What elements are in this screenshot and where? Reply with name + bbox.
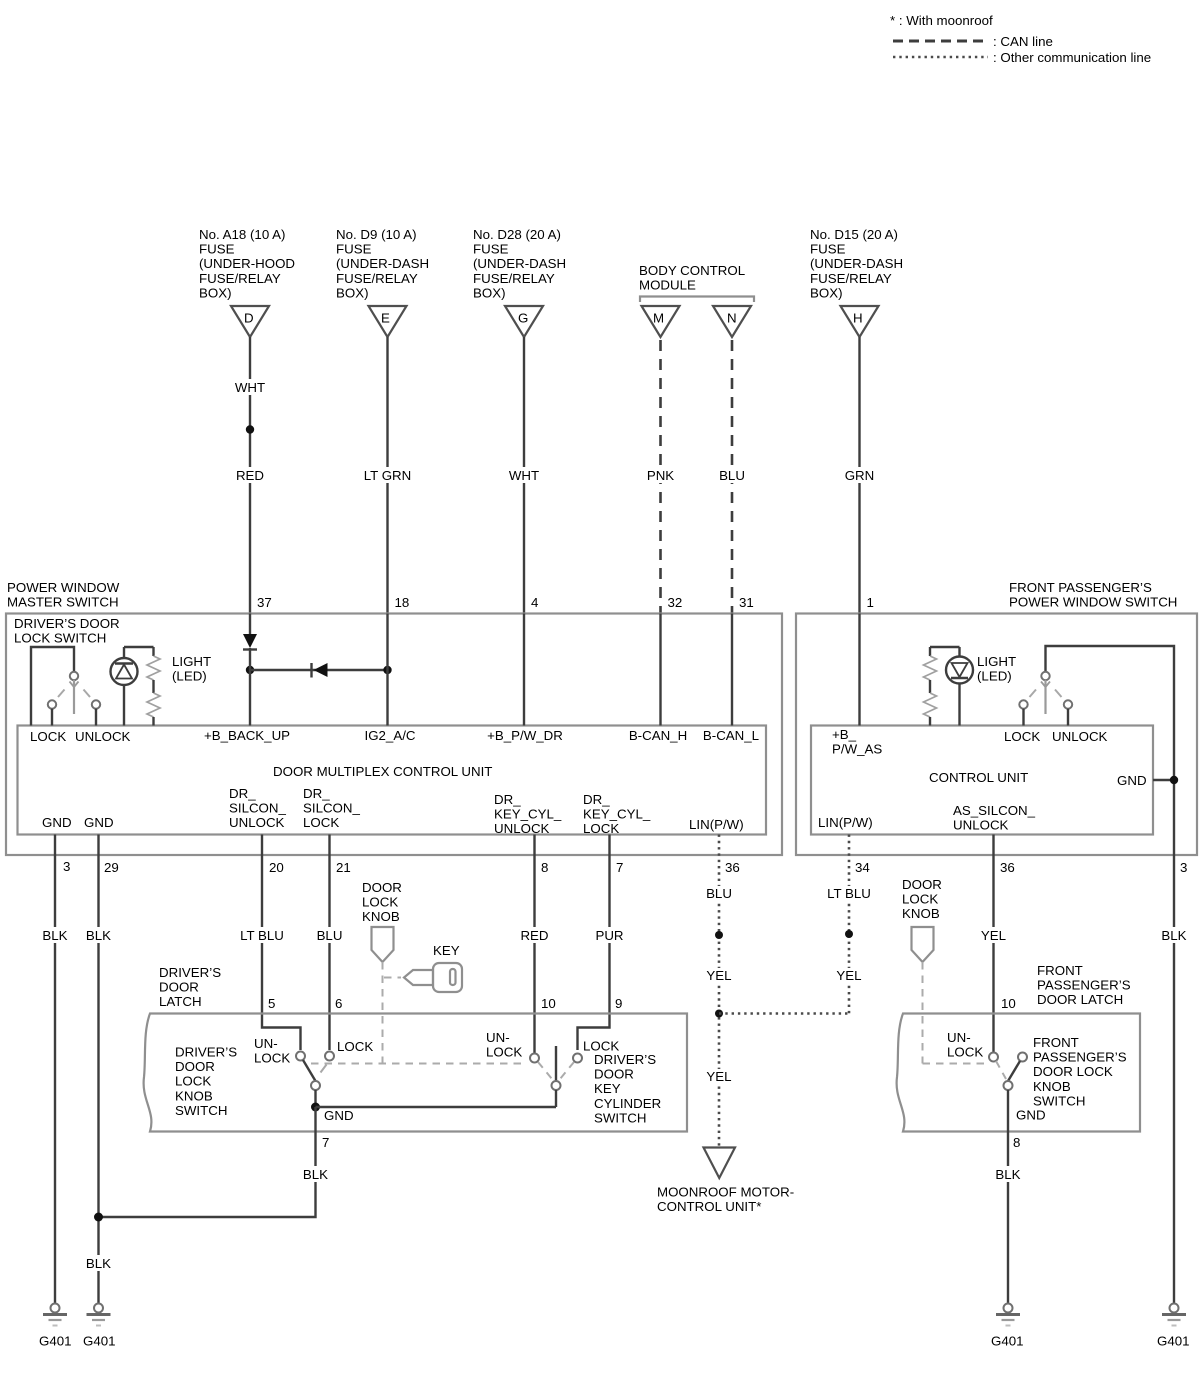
key cylinder arm — [555, 1046, 557, 1081]
passenger LED D4 — [946, 647, 973, 726]
passenger lock switch bracket wire — [1046, 646, 1175, 855]
svg-text:UN-: UN- — [486, 1030, 510, 1045]
svg-text:FUSE/RELAY: FUSE/RELAY — [336, 271, 418, 286]
svg-text:YEL: YEL — [706, 968, 731, 983]
svg-text:N: N — [727, 311, 737, 326]
svg-text:10: 10 — [541, 996, 556, 1011]
driver knob switch arm — [303, 1060, 316, 1081]
svg-text:POWER WINDOW: POWER WINDOW — [7, 580, 120, 595]
svg-text:6: 6 — [335, 996, 342, 1011]
svg-text:PASSENGER’S: PASSENGER’S — [1037, 978, 1131, 993]
DR_KEY_CYL_UNLOCK pin label — [494, 792, 562, 836]
svg-text:KNOB: KNOB — [902, 906, 940, 921]
svg-text:DRIVER’S DOOR: DRIVER’S DOOR — [14, 616, 120, 631]
svg-text:LOCK: LOCK — [947, 1045, 983, 1060]
svg-text:MODULE: MODULE — [639, 278, 696, 293]
svg-text:SWITCH: SWITCH — [1033, 1093, 1085, 1108]
wire BLK pin 3 passenger to G401 — [1160, 855, 1188, 1303]
svg-text:UNLOCK: UNLOCK — [953, 818, 1009, 833]
svg-text:LOCK: LOCK — [337, 1039, 373, 1054]
driver LED bracket wire — [124, 646, 154, 648]
svg-text:LT BLU: LT BLU — [240, 928, 284, 943]
svg-text:: Other communication line: : Other communication line — [993, 50, 1151, 65]
svg-text:DOOR: DOOR — [159, 980, 199, 995]
door lock knob label driver — [362, 880, 402, 924]
svg-text:18: 18 — [395, 595, 410, 610]
driver knob switch dashed arm — [321, 1065, 327, 1073]
svg-text:KNOB: KNOB — [1033, 1079, 1071, 1094]
passenger knob switch lock contact — [1018, 1053, 1027, 1062]
svg-text:DOOR: DOOR — [594, 1067, 634, 1082]
svg-text:YEL: YEL — [706, 1069, 731, 1084]
driver key cylinder lock contact — [573, 1054, 582, 1063]
svg-text:LOCK: LOCK — [254, 1051, 290, 1066]
svg-text:FRONT PASSENGER’S: FRONT PASSENGER’S — [1009, 580, 1152, 595]
passenger lock switch arm — [1041, 680, 1050, 714]
svg-text:32: 32 — [668, 595, 683, 610]
front passenger's door latch label — [1037, 963, 1131, 1007]
svg-text:DOOR LATCH: DOOR LATCH — [1037, 992, 1123, 1007]
driver's door lock switch bracket wire — [31, 647, 74, 726]
svg-text:WHT: WHT — [235, 380, 265, 395]
junction +B_BACK_UP node — [246, 666, 254, 674]
front passenger's door lock knob switch label — [1033, 1035, 1127, 1108]
svg-text:LOCK: LOCK — [583, 821, 619, 836]
svg-text:SILCON_: SILCON_ — [303, 801, 361, 816]
passenger knob switch arm — [1008, 1061, 1020, 1081]
connector E — [369, 306, 407, 337]
svg-text:BLK: BLK — [1161, 928, 1186, 943]
svg-text:GND: GND — [42, 815, 72, 830]
svg-text:DOOR LOCK: DOOR LOCK — [1033, 1064, 1113, 1079]
svg-text:LOCK: LOCK — [486, 1045, 522, 1060]
wire BLK pin 3 to G401 — [41, 835, 69, 1304]
svg-text:21: 21 — [336, 860, 351, 875]
svg-text:20: 20 — [269, 860, 284, 875]
svg-text:FUSE: FUSE — [199, 242, 235, 257]
svg-text:CYLINDER: CYLINDER — [594, 1096, 661, 1111]
svg-text:BLK: BLK — [86, 1256, 111, 1271]
svg-text:29: 29 — [104, 860, 119, 875]
svg-text:KEY: KEY — [433, 943, 460, 958]
svg-text:DOOR: DOOR — [175, 1059, 215, 1074]
driver LED D1 — [111, 647, 138, 726]
passenger LED bracket wire — [930, 646, 960, 648]
svg-text:UNLOCK: UNLOCK — [494, 821, 550, 836]
svg-text:LT GRN: LT GRN — [364, 468, 412, 483]
door lock knob symbol passenger — [912, 927, 934, 962]
svg-text:LIN(P/W): LIN(P/W) — [689, 817, 744, 832]
svg-text:UNLOCK: UNLOCK — [1052, 729, 1108, 744]
front passenger's power window switch label — [1009, 580, 1177, 610]
GND link wire to key cylinder common — [316, 1106, 557, 1108]
key cylinder dashed arms — [538, 1062, 574, 1079]
svg-text:(LED): (LED) — [172, 669, 207, 684]
pin number row below boxes — [63, 859, 1187, 875]
svg-text:LIGHT: LIGHT — [172, 654, 211, 669]
svg-text:GRN: GRN — [845, 468, 875, 483]
svg-text:RED: RED — [520, 928, 548, 943]
passenger inner box pin labels — [832, 727, 1108, 757]
svg-text:IG2_A/C: IG2_A/C — [365, 728, 416, 743]
svg-text:4: 4 — [531, 595, 538, 610]
wire LT BLU pin 20 — [237, 835, 301, 1051]
wire B-CAN_L inside box — [731, 614, 733, 726]
driver's door lock knob switch label — [175, 1045, 237, 1118]
svg-text:DRIVER’S: DRIVER’S — [159, 965, 221, 980]
ground G401 b — [83, 1304, 116, 1349]
svg-text:LOCK: LOCK — [1004, 729, 1040, 744]
svg-text:UN-: UN- — [254, 1036, 278, 1051]
svg-text:LOCK: LOCK — [303, 815, 339, 830]
svg-text:B-CAN_L: B-CAN_L — [703, 728, 759, 743]
svg-text:No. D15 (20 A): No. D15 (20 A) — [810, 227, 898, 242]
passenger control unit box — [811, 726, 1153, 835]
connector D — [231, 306, 269, 337]
svg-text:UNLOCK: UNLOCK — [75, 729, 131, 744]
svg-text:BODY CONTROL: BODY CONTROL — [639, 263, 745, 278]
svg-text:RED: RED — [236, 468, 264, 483]
svg-text:LATCH: LATCH — [159, 994, 202, 1009]
svg-text:LOCK SWITCH: LOCK SWITCH — [14, 631, 106, 646]
svg-text:+B_: +B_ — [832, 727, 857, 742]
passenger common wire to GND — [1007, 1090, 1009, 1303]
passenger lock switch UNLOCK contact — [1064, 700, 1072, 725]
driver's door key cylinder switch label — [594, 1052, 661, 1125]
svg-text:(UNDER-DASH: (UNDER-DASH — [473, 256, 566, 271]
svg-text:D: D — [244, 311, 254, 326]
svg-text:8: 8 — [1013, 1135, 1020, 1150]
driver's door lock switch pivot — [70, 672, 78, 680]
junction IG2 node — [383, 666, 391, 674]
wire LIN dotted pin 36 left — [705, 835, 734, 1148]
knob linkage dashed passenger — [923, 962, 988, 1064]
svg-text:34: 34 — [855, 860, 870, 875]
driver's door latch label — [159, 965, 221, 1009]
wire LIN dotted pin 34 right — [826, 835, 873, 1014]
svg-text:BLK: BLK — [303, 1167, 328, 1182]
ground G401 c — [991, 1304, 1024, 1349]
driver knob switch common — [311, 1081, 320, 1090]
wire pin 1 to +B_P/W_AS — [858, 614, 860, 726]
svg-text:BLU: BLU — [706, 886, 732, 901]
svg-text:31: 31 — [739, 595, 754, 610]
svg-text:7: 7 — [616, 860, 623, 875]
wire BLU pin 21 — [315, 835, 344, 1051]
svg-text:PUR: PUR — [595, 928, 623, 943]
svg-text:AS_SILCON_: AS_SILCON_ — [953, 803, 1036, 818]
svg-text:FUSE/RELAY: FUSE/RELAY — [199, 271, 281, 286]
svg-text:KEY_CYL_: KEY_CYL_ — [583, 807, 651, 822]
wire PNK CAN connector M to pin 32 — [644, 340, 677, 614]
svg-text:LIGHT: LIGHT — [977, 654, 1016, 669]
svg-text:No. D28 (20 A): No. D28 (20 A) — [473, 227, 561, 242]
wire LT GRN fuse E to pin 18 — [362, 337, 413, 614]
svg-text:No. D9 (10 A): No. D9 (10 A) — [336, 227, 417, 242]
svg-text:3: 3 — [63, 859, 70, 874]
driver key cylinder unlock contact — [530, 1054, 539, 1063]
svg-text:(LED): (LED) — [977, 669, 1012, 684]
svg-text:BLU: BLU — [719, 468, 745, 483]
svg-text:(UNDER-DASH: (UNDER-DASH — [810, 256, 903, 271]
light LED label passenger — [977, 654, 1016, 684]
driver's door lock switch dashed arms — [58, 690, 90, 698]
svg-text:G: G — [518, 311, 528, 326]
diode D3 horizontal — [312, 663, 328, 678]
svg-text:+B_BACK_UP: +B_BACK_UP — [204, 728, 290, 743]
svg-text:DR_: DR_ — [229, 786, 256, 801]
svg-text:PASSENGER’S: PASSENGER’S — [1033, 1050, 1127, 1065]
connector M — [642, 306, 680, 337]
svg-text:LIN(P/W): LIN(P/W) — [818, 815, 873, 830]
svg-text:BLU: BLU — [317, 928, 343, 943]
resistor R2 passenger — [924, 647, 937, 726]
svg-text:G401: G401 — [991, 1334, 1024, 1349]
svg-text:KEY: KEY — [594, 1081, 621, 1096]
svg-text:BLK: BLK — [86, 928, 111, 943]
svg-text:KEY_CYL_: KEY_CYL_ — [494, 807, 562, 822]
svg-text:SWITCH: SWITCH — [594, 1110, 646, 1125]
svg-text:DOOR: DOOR — [362, 880, 402, 895]
svg-text:36: 36 — [725, 860, 740, 875]
DR_KEY_CYL_LOCK pin label — [583, 792, 651, 836]
wire B-CAN_H inside box — [659, 614, 661, 726]
svg-text:B-CAN_H: B-CAN_H — [629, 728, 687, 743]
passenger lock switch pivot — [1041, 672, 1049, 680]
left inner box pin labels — [30, 728, 759, 744]
fuse D28 label — [473, 227, 566, 300]
svg-text:3: 3 — [1180, 860, 1187, 875]
svg-text:KNOB: KNOB — [175, 1088, 213, 1103]
driver knob switch common wire to GND junction — [314, 1090, 316, 1107]
driver knob switch UN-LOCK label — [254, 1036, 290, 1066]
svg-text:G401: G401 — [83, 1334, 116, 1349]
svg-text:1: 1 — [867, 595, 874, 610]
svg-text:FRONT: FRONT — [1033, 1035, 1079, 1050]
driver knob switch lock contact — [325, 1052, 334, 1061]
svg-text:BLK: BLK — [42, 928, 67, 943]
fuse A18 label — [199, 227, 295, 300]
svg-text:BOX): BOX) — [473, 285, 506, 300]
power window master switch box — [6, 614, 782, 856]
diode D2 vertical on +B_BACK_UP — [243, 634, 257, 650]
svg-text:CONTROL UNIT*: CONTROL UNIT* — [657, 1199, 761, 1214]
svg-text:CONTROL UNIT: CONTROL UNIT — [929, 770, 1028, 785]
door multiplex control unit box — [18, 726, 767, 835]
svg-text:GND: GND — [84, 815, 114, 830]
ground G401 a — [39, 1304, 72, 1349]
svg-text:36: 36 — [1000, 860, 1015, 875]
svg-text:+B_P/W_DR: +B_P/W_DR — [487, 728, 563, 743]
door lock knob symbol driver — [372, 927, 394, 962]
svg-text:37: 37 — [257, 595, 272, 610]
fuse D15 label — [810, 227, 903, 300]
svg-text:FUSE/RELAY: FUSE/RELAY — [473, 271, 555, 286]
svg-text:LT BLU: LT BLU — [827, 886, 871, 901]
wire BLK pin 7 to junction — [94, 1107, 330, 1222]
svg-text:PNK: PNK — [647, 468, 674, 483]
svg-text:FUSE: FUSE — [473, 242, 509, 257]
driver's door latch box — [144, 1014, 687, 1132]
svg-text:FUSE: FUSE — [336, 242, 372, 257]
svg-text:DR_: DR_ — [303, 786, 330, 801]
wire PUR pin 7 — [578, 835, 627, 1051]
svg-text:SILCON_: SILCON_ — [229, 801, 287, 816]
svg-text:(UNDER-HOOD: (UNDER-HOOD — [199, 256, 295, 271]
moonroof motor control unit connector — [704, 1148, 736, 1179]
wire WHT fuse G to pin 4 — [507, 337, 541, 614]
svg-text:FRONT: FRONT — [1037, 963, 1083, 978]
svg-text:UN-: UN- — [947, 1030, 971, 1045]
svg-text:LOCK: LOCK — [30, 729, 66, 744]
wire BLU CAN connector N to pin 31 — [716, 340, 748, 614]
connector G — [505, 306, 543, 337]
svg-text:8: 8 — [541, 860, 548, 875]
driver knob switch unlock contact — [296, 1052, 305, 1061]
svg-text:(UNDER-DASH: (UNDER-DASH — [336, 256, 429, 271]
key cylinder UN-LOCK label — [486, 1030, 522, 1060]
svg-text:SWITCH: SWITCH — [175, 1103, 227, 1118]
wire BLK pin 29 to G401 — [84, 835, 112, 1304]
svg-text:E: E — [381, 311, 390, 326]
svg-text:FUSE: FUSE — [810, 242, 846, 257]
wire RED pin 8 — [519, 835, 550, 1055]
moonroof motor control unit label — [657, 1185, 794, 1215]
svg-text:MASTER SWITCH: MASTER SWITCH — [7, 595, 119, 610]
passenger knob switch dashed arm — [996, 1061, 1006, 1079]
svg-text:BLK: BLK — [995, 1167, 1020, 1182]
wire LIN dotted horizontal link — [719, 1012, 849, 1015]
svg-text:YEL: YEL — [836, 968, 861, 983]
svg-text:WHT: WHT — [509, 468, 539, 483]
svg-text:9: 9 — [615, 996, 622, 1011]
svg-text:KNOB: KNOB — [362, 909, 400, 924]
front passenger's door latch box — [897, 1014, 1140, 1132]
svg-text:BOX): BOX) — [199, 285, 232, 300]
svg-text:DOOR MULTIPLEX CONTROL UNIT: DOOR MULTIPLEX CONTROL UNIT — [273, 764, 492, 779]
passenger lock switch dashed arms — [1030, 690, 1062, 698]
wire +B_P/W_DR to pin — [523, 614, 525, 726]
svg-text:YEL: YEL — [981, 928, 1006, 943]
svg-text:No. A18 (10 A): No. A18 (10 A) — [199, 227, 285, 242]
svg-text:: CAN line: : CAN line — [993, 34, 1053, 49]
wire IG2_A/C to pin — [386, 614, 388, 726]
svg-text:LOCK: LOCK — [362, 895, 398, 910]
svg-text:MOONROOF MOTOR-: MOONROOF MOTOR- — [657, 1185, 794, 1200]
power window master switch label — [7, 580, 120, 610]
driver's door lock switch arm — [70, 680, 79, 714]
key cylinder common — [552, 1081, 561, 1090]
svg-text:LOCK: LOCK — [175, 1074, 211, 1089]
svg-text:10: 10 — [1001, 996, 1016, 1011]
svg-text:GND: GND — [324, 1108, 354, 1123]
key symbol — [384, 963, 462, 992]
wire WHT/RED fuse D to pin 37 — [233, 337, 267, 614]
svg-text:H: H — [853, 311, 863, 326]
svg-text:P/W_AS: P/W_AS — [832, 742, 882, 757]
svg-text:FUSE/RELAY: FUSE/RELAY — [810, 271, 892, 286]
svg-text:LOCK: LOCK — [902, 892, 938, 907]
door lock knob label passenger — [902, 877, 942, 921]
passenger GND pin link — [1153, 776, 1178, 784]
DR_SILCON_LOCK pin label — [303, 786, 361, 830]
wire YEL pin 36 passenger — [979, 835, 1008, 1053]
svg-text:G401: G401 — [1157, 1334, 1190, 1349]
connector H — [841, 306, 879, 337]
legend — [890, 13, 1151, 65]
svg-text:DR_: DR_ — [494, 792, 521, 807]
connector N — [713, 306, 751, 337]
svg-text:5: 5 — [268, 996, 275, 1011]
svg-text:GND: GND — [1117, 773, 1147, 788]
front passenger's power window switch box — [796, 614, 1197, 856]
svg-text:DRIVER’S: DRIVER’S — [175, 1045, 237, 1060]
svg-text:7: 7 — [322, 1135, 329, 1150]
svg-text:* : With moonroof: * : With moonroof — [890, 13, 993, 28]
svg-text:GND: GND — [1016, 1108, 1046, 1123]
passenger lock switch LOCK contact — [1019, 700, 1027, 725]
GND GND pin labels — [42, 815, 114, 830]
passenger knob switch UN-LOCK label — [947, 1030, 983, 1060]
wire cross link 37-18 — [250, 669, 388, 671]
driver's door lock switch label — [14, 616, 120, 646]
svg-text:G401: G401 — [39, 1334, 72, 1349]
BLK label passenger pin 8 — [994, 1166, 1023, 1182]
GND junction driver latch — [311, 1103, 320, 1112]
driver's door lock switch LOCK contact — [48, 700, 56, 725]
AS_SILCON_UNLOCK pin label — [953, 803, 1036, 833]
svg-text:M: M — [653, 311, 664, 326]
wire +B_BACK_UP to pin — [249, 614, 251, 635]
body control module label — [639, 263, 745, 293]
svg-text:BOX): BOX) — [810, 285, 843, 300]
fuse D9 label — [336, 227, 429, 300]
svg-text:UNLOCK: UNLOCK — [229, 815, 285, 830]
passenger knob switch common — [1004, 1081, 1013, 1090]
DR_SILCON_UNLOCK pin label — [229, 786, 287, 830]
ground G401 d — [1157, 1304, 1190, 1349]
wire GRN fuse H to pin 1 — [842, 337, 877, 614]
svg-text:DR_: DR_ — [583, 792, 610, 807]
svg-text:POWER WINDOW SWITCH: POWER WINDOW SWITCH — [1009, 595, 1177, 610]
svg-text:DRIVER’S: DRIVER’S — [594, 1052, 656, 1067]
passenger knob switch unlock contact — [989, 1053, 998, 1062]
light LED label driver — [172, 654, 211, 684]
svg-text:BOX): BOX) — [336, 285, 369, 300]
resistor R1 driver — [147, 647, 160, 726]
svg-text:DOOR: DOOR — [902, 877, 942, 892]
knob linkage dashed driver — [311, 962, 527, 1064]
body control module bracket — [640, 297, 754, 303]
key cylinder common wire — [555, 1090, 557, 1107]
driver's door lock switch UNLOCK contact — [92, 700, 100, 725]
